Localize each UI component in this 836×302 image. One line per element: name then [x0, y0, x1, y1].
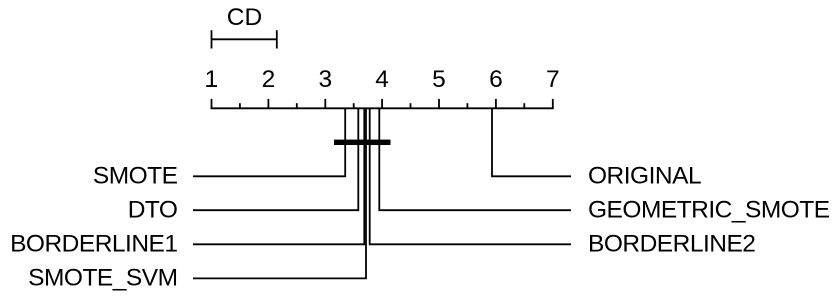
svg-text:6: 6	[489, 66, 503, 93]
svg-text:GEOMETRIC_SMOTE: GEOMETRIC_SMOTE	[588, 196, 830, 223]
svg-text:2: 2	[262, 66, 276, 93]
method line SMOTE	[193, 108, 345, 176]
svg-text:1: 1	[205, 66, 219, 93]
method line BORDERLINE2	[370, 108, 571, 244]
svg-text:DTO: DTO	[128, 196, 178, 223]
method line DTO	[193, 108, 358, 210]
method line BORDERLINE1	[193, 108, 364, 244]
svg-text:7: 7	[546, 66, 560, 93]
svg-text:SMOTE: SMOTE	[93, 163, 178, 190]
major ticks	[212, 99, 553, 108]
svg-text:BORDERLINE2: BORDERLINE2	[588, 231, 755, 258]
axis line	[211, 107, 554, 109]
svg-text:CD: CD	[227, 4, 262, 31]
method line SMOTE_SVM	[193, 108, 366, 278]
clique bar	[334, 140, 391, 145]
svg-text:SMOTE_SVM: SMOTE_SVM	[28, 265, 177, 292]
svg-text:3: 3	[318, 66, 332, 93]
svg-text:4: 4	[375, 66, 389, 93]
svg-text:BORDERLINE1: BORDERLINE1	[10, 231, 177, 258]
svg-text:ORIGINAL: ORIGINAL	[588, 163, 701, 190]
minor ticks	[240, 103, 524, 108]
svg-text:5: 5	[432, 66, 446, 93]
method line ORIGINAL	[492, 108, 571, 176]
CD bracket	[212, 30, 277, 48]
method line GEOMETRIC_SMOTE	[379, 108, 571, 210]
digit 1 foot serif	[206, 85, 217, 87]
